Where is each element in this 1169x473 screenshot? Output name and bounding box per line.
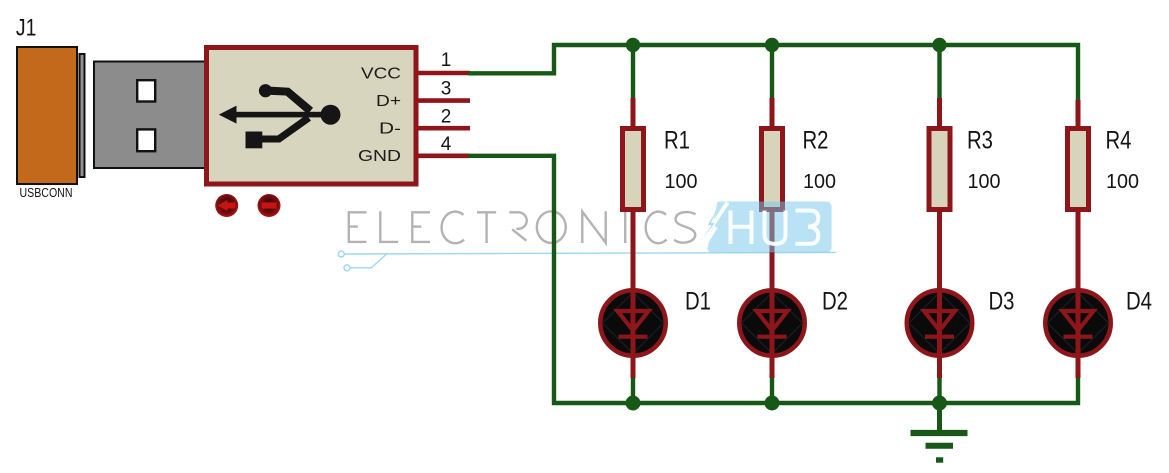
pin stub 1 (VCC) bbox=[416, 71, 470, 76]
svg-text:R1: R1 bbox=[664, 126, 690, 154]
svg-text:4: 4 bbox=[441, 134, 452, 155]
red marker ball 2 (with bar) bbox=[258, 194, 281, 217]
svg-text:1: 1 bbox=[441, 50, 452, 71]
pin stub 2 (D-) bbox=[416, 126, 470, 131]
junction node bottom D2 bbox=[765, 396, 780, 411]
wire R1 top drop bbox=[631, 45, 635, 99]
svg-text:3: 3 bbox=[441, 79, 452, 100]
svg-text:100: 100 bbox=[803, 171, 836, 193]
wire D2 bottom drop bbox=[770, 376, 774, 403]
svg-text:GND: GND bbox=[358, 148, 401, 165]
svg-text:D3: D3 bbox=[989, 288, 1015, 316]
resistor R2 bbox=[762, 98, 783, 288]
USB plug thin contact strip bbox=[80, 54, 85, 177]
junction node top R1 bbox=[626, 38, 640, 52]
wire GND rail (bottom) bbox=[468, 156, 1078, 403]
LED D3 bbox=[907, 286, 972, 378]
pin stub 4 (GND) bbox=[416, 154, 470, 159]
USB trident symbol bbox=[219, 84, 341, 148]
svg-text:R3: R3 bbox=[967, 126, 993, 154]
wire R3 top drop bbox=[937, 45, 941, 99]
svg-text:D+: D+ bbox=[376, 93, 401, 110]
svg-text:VCC: VCC bbox=[361, 65, 401, 82]
pin stub 3 (D+) bbox=[416, 98, 470, 103]
junction node bottom D3/ground bbox=[932, 396, 947, 411]
shell contact window 2 bbox=[137, 129, 155, 151]
LED D1 bbox=[600, 286, 665, 378]
resistor R1 bbox=[623, 98, 644, 288]
junction node bottom D1 bbox=[626, 396, 641, 411]
USB component body box bbox=[207, 48, 417, 185]
svg-text:USBCONN: USBCONN bbox=[20, 185, 73, 200]
svg-text:D-: D- bbox=[379, 121, 401, 138]
watermark ELECTRONICS text (behind circuit) bbox=[349, 211, 696, 243]
USB plug gray shell bbox=[94, 62, 206, 169]
LED D2 bbox=[739, 286, 804, 378]
LED D4 bbox=[1045, 286, 1110, 378]
resistor R3 bbox=[929, 98, 950, 288]
svg-text:100: 100 bbox=[665, 171, 698, 193]
svg-text:D2: D2 bbox=[822, 288, 848, 316]
svg-text:R2: R2 bbox=[803, 126, 829, 154]
wire D3 bottom drop bbox=[937, 376, 941, 403]
svg-text:2: 2 bbox=[441, 106, 452, 127]
USB plug orange body bbox=[17, 47, 77, 184]
wire VCC rail (top) bbox=[468, 45, 1078, 101]
resistor R4 bbox=[1068, 100, 1089, 288]
watermark HUB block (over circuit, semi-transparent) bbox=[703, 202, 831, 253]
shell contact window 1 bbox=[137, 80, 155, 101]
ground symbol bbox=[911, 403, 968, 460]
watermark blue trace line with terminals (behind circuit) bbox=[338, 251, 836, 271]
wire R2 top drop bbox=[770, 45, 774, 99]
svg-text:100: 100 bbox=[1106, 171, 1139, 193]
junction node top R2 bbox=[765, 38, 779, 52]
svg-text:D4: D4 bbox=[1126, 288, 1152, 316]
red marker ball 1 (with left arrow) bbox=[215, 194, 238, 217]
junction node top R3 bbox=[932, 38, 946, 52]
svg-text:J1: J1 bbox=[16, 15, 37, 42]
wire D1 bottom drop bbox=[631, 376, 635, 403]
svg-text:R4: R4 bbox=[1106, 126, 1132, 154]
svg-text:D1: D1 bbox=[685, 288, 711, 316]
svg-text:100: 100 bbox=[968, 171, 1001, 193]
